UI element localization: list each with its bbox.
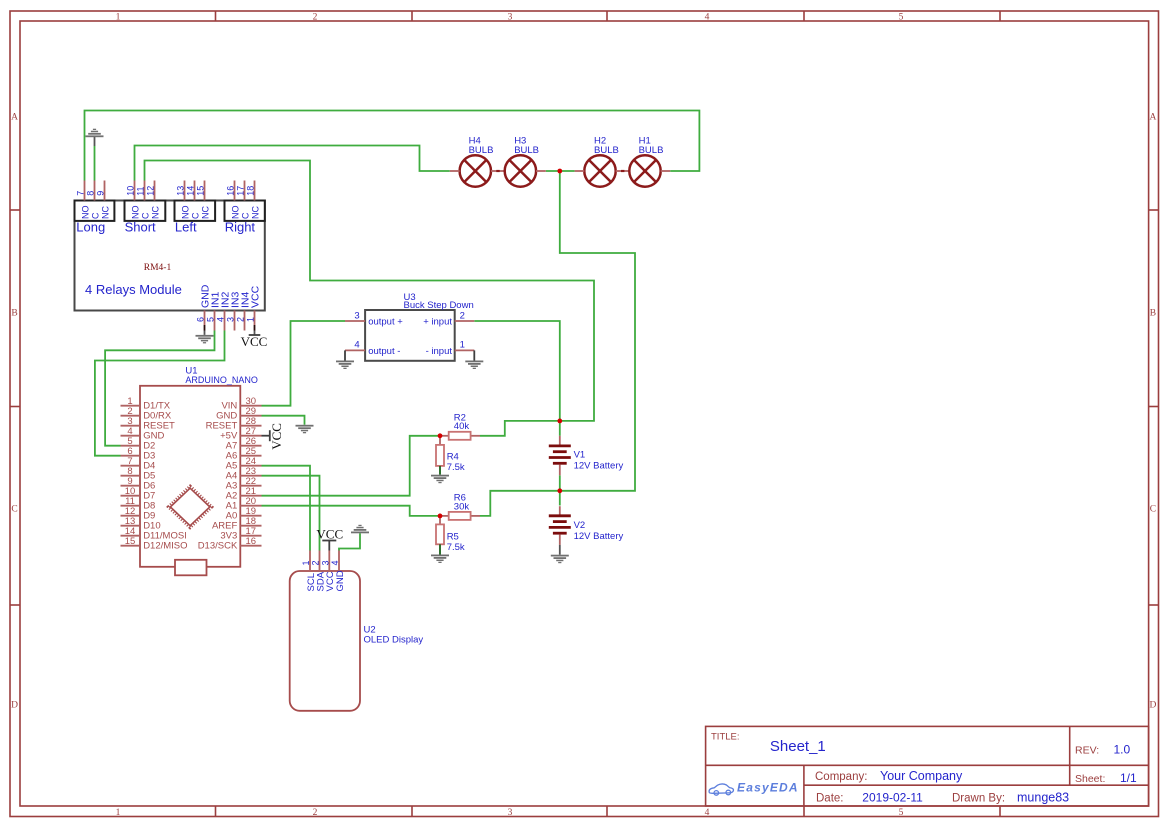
- svg-text:Sheet_1: Sheet_1: [770, 738, 826, 755]
- wire U1 A2 pin21 to node J3 (R2/R4): [262, 436, 441, 496]
- Arduino Nano U1 body: [140, 386, 240, 567]
- svg-text:40k: 40k: [454, 421, 470, 432]
- svg-text:2: 2: [313, 808, 318, 818]
- svg-text:C: C: [11, 505, 17, 515]
- svg-text:Date:: Date:: [816, 793, 844, 805]
- wire V1 bottom to node J2: [559, 475, 561, 491]
- svg-text:C: C: [90, 212, 100, 219]
- svg-text:EasyEDA: EasyEDA: [737, 781, 799, 795]
- svg-text:VCC: VCC: [269, 423, 284, 450]
- ground flag at relay pin 6: [196, 335, 214, 337]
- ground flag (inverted) at U2 pin 4: [351, 532, 369, 534]
- svg-text:2: 2: [313, 12, 318, 22]
- wire U3 pin2 (+ input) to node J1: [474, 321, 560, 421]
- ground flag at R4: [431, 475, 449, 477]
- U1 pin 1 (D1/TX): [121, 405, 141, 407]
- svg-text:GND: GND: [335, 570, 346, 591]
- relay contact box Right: [225, 201, 265, 221]
- svg-text:Short: Short: [125, 220, 156, 235]
- svg-text:5: 5: [899, 12, 904, 22]
- wire relay pin10 to H4 left terminal: [135, 146, 450, 181]
- svg-text:+ input: + input: [423, 316, 452, 327]
- U1 pin 10 (D7): [121, 495, 141, 497]
- svg-text:1: 1: [460, 340, 465, 351]
- svg-text:NC: NC: [100, 206, 110, 219]
- relay top pin 8 stub: [94, 181, 96, 201]
- U2 pin 4 (GND): [338, 551, 340, 572]
- wire OLED GND pin4 to ground: [339, 533, 360, 550]
- relay top pin 18 stub: [254, 181, 256, 201]
- buck converter U3 body: [365, 310, 455, 361]
- svg-text:4: 4: [216, 317, 226, 322]
- relay bottom pin 3 (IN3) stub: [234, 311, 236, 331]
- svg-text:17: 17: [236, 186, 246, 196]
- svg-text:ARDUINO_NANO: ARDUINO_NANO: [185, 375, 258, 386]
- svg-text:Right: Right: [225, 220, 256, 235]
- U1 pin 5 (D2): [121, 445, 141, 447]
- U1 pin 16 (D13/SCK): [240, 545, 261, 547]
- relay top pin 15 stub: [204, 181, 206, 201]
- wire R6 right to node J2: [480, 491, 560, 516]
- ground flag at V2: [551, 555, 569, 557]
- svg-text:1.0: 1.0: [1114, 743, 1131, 757]
- ground flag at U3 pin 4: [344, 350, 346, 360]
- U1 pin 12 (D9): [121, 515, 141, 517]
- node J2 battery midpoint junction: [557, 488, 562, 493]
- wire bulb row H3 to H2 through node J0: [546, 170, 575, 172]
- wire U1 A4 pin23 to OLED SDA: [262, 476, 320, 551]
- U1 pin 9 (D6): [121, 485, 141, 487]
- relay bottom pin 2 (IN4) stub: [244, 311, 246, 331]
- svg-text:Left: Left: [175, 220, 197, 235]
- ground flag at U3 pin 1: [473, 350, 475, 360]
- U3 pin 1 (- input): [455, 349, 475, 351]
- battery V2 12V: [559, 506, 561, 515]
- svg-text:13: 13: [176, 186, 186, 196]
- resistor R5 7.5k: [439, 516, 441, 525]
- U1 pin 23 (A4): [240, 475, 261, 477]
- relay bottom pin 6 (GND) stub: [204, 311, 206, 326]
- wire U1 A5 pin24 to OLED SCL: [262, 466, 311, 551]
- ground flag at R5: [431, 555, 449, 557]
- svg-text:8: 8: [86, 191, 96, 196]
- svg-text:D: D: [1149, 701, 1156, 711]
- svg-text:VCC: VCC: [241, 334, 268, 349]
- svg-text:1: 1: [301, 560, 311, 565]
- svg-text:2: 2: [311, 560, 321, 565]
- U1 pin 28 (RESET): [240, 425, 261, 427]
- relay module RM4-1 body: [75, 201, 265, 311]
- svg-text:NC: NC: [150, 206, 160, 219]
- relay contact box Left: [175, 201, 216, 221]
- relay top pin 7 stub: [84, 181, 86, 201]
- relay top pin 11 stub: [144, 181, 146, 201]
- resistor R2 40k: [440, 435, 449, 437]
- wire relay IN1 pin5 to U1 D2 pin5: [105, 331, 214, 446]
- svg-text:7: 7: [76, 191, 86, 196]
- relay top pin 9 stub: [104, 181, 106, 201]
- wire R2 right to node J1: [480, 421, 560, 436]
- svg-text:VCC: VCC: [316, 527, 343, 542]
- relay bottom pin 1 (VCC) stub: [254, 311, 256, 326]
- bulb H2: [584, 155, 615, 186]
- svg-text:3: 3: [508, 808, 513, 818]
- relay top pin 10 stub: [134, 181, 136, 201]
- svg-text:OLED Display: OLED Display: [364, 634, 424, 645]
- svg-text:12V Battery: 12V Battery: [574, 531, 624, 542]
- wire relay IN2 pin4 to U1 D3 pin6: [95, 331, 225, 456]
- svg-text:NO: NO: [130, 206, 140, 220]
- svg-text:2: 2: [236, 317, 246, 322]
- svg-text:C: C: [140, 212, 150, 219]
- wire U3 pin3 (output +) to U1 VIN pin30: [262, 321, 346, 406]
- svg-text:30k: 30k: [454, 501, 470, 512]
- svg-text:4: 4: [705, 808, 710, 818]
- svg-text:9: 9: [96, 191, 106, 196]
- U2 pin 1 (SCL): [309, 551, 311, 572]
- svg-text:6: 6: [196, 317, 206, 322]
- svg-text:BULB: BULB: [514, 145, 539, 156]
- wire node J2 to V2 top: [559, 491, 561, 506]
- svg-text:18: 18: [246, 186, 256, 196]
- node J3 R2/R4 junction: [438, 433, 443, 438]
- wire U1 A1 pin20 to node J4 (R6/R5): [262, 506, 441, 516]
- svg-text:Long: Long: [76, 220, 105, 235]
- svg-text:- input: - input: [426, 346, 453, 357]
- relay top pin 16 stub: [234, 181, 236, 201]
- ground flag (inverted) at relay pin 8: [94, 137, 96, 146]
- U2 pin 2 (SDA): [319, 551, 321, 572]
- U1 pin 18 (AREF): [240, 525, 261, 527]
- svg-text:4: 4: [330, 560, 340, 565]
- U1 pin 3 (RESET): [121, 425, 141, 427]
- svg-text:Your Company: Your Company: [880, 769, 963, 783]
- U1 pin 21 (A2): [240, 495, 261, 497]
- svg-text:VCC: VCC: [249, 285, 261, 308]
- VCC flag at U2 pin 3: [328, 541, 330, 551]
- svg-text:C: C: [190, 212, 200, 219]
- relay top pin 17 stub: [244, 181, 246, 201]
- svg-text:RM4-1: RM4-1: [144, 263, 172, 273]
- U1 pin 25 (A6): [240, 455, 261, 457]
- svg-text:V2: V2: [574, 520, 586, 531]
- H2 terminal stubs: [575, 170, 585, 172]
- U1 pin 14 (D11/MOSI): [121, 535, 141, 537]
- svg-text:V1: V1: [574, 450, 586, 461]
- svg-text:1: 1: [116, 12, 121, 22]
- svg-text:Company:: Company:: [815, 771, 867, 783]
- relay bottom pin 5 (IN1) stub: [214, 311, 216, 331]
- svg-text:11: 11: [136, 186, 146, 195]
- svg-text:2019-02-11: 2019-02-11: [862, 791, 923, 805]
- wire relay pin11 to node J1 (battery +): [145, 161, 595, 421]
- EasyEDA logo: [709, 784, 733, 795]
- U1 pin 6 (D3): [121, 455, 141, 457]
- svg-text:C: C: [1150, 505, 1156, 515]
- U1 pin 7 (D4): [121, 465, 141, 467]
- svg-text:output -: output -: [368, 346, 400, 357]
- U1 pin 24 (A5): [240, 465, 261, 467]
- svg-text:5: 5: [899, 808, 904, 818]
- wire node J1 to V1 top: [559, 421, 561, 436]
- U1 pin 17 (3V3): [240, 535, 261, 537]
- U1 pin 2 (D0/RX): [121, 415, 141, 417]
- battery V1 12V: [559, 436, 561, 446]
- svg-text:3: 3: [508, 12, 513, 22]
- node J0 bulb row junction: [557, 169, 562, 174]
- svg-text:C: C: [240, 212, 250, 219]
- svg-text:1: 1: [246, 317, 256, 322]
- U1 pin 8 (D5): [121, 475, 141, 477]
- svg-text:16: 16: [226, 186, 236, 196]
- svg-text:1/1: 1/1: [1120, 771, 1137, 785]
- svg-text:D12/MISO: D12/MISO: [143, 541, 187, 552]
- svg-text:NC: NC: [250, 206, 260, 219]
- U1 pin 26 (A7): [240, 445, 261, 447]
- U3 pin 2 (+ input): [455, 320, 475, 322]
- svg-text:NO: NO: [180, 206, 190, 220]
- U2 pin 3 (VCC): [328, 551, 330, 572]
- svg-text:output +: output +: [368, 316, 403, 327]
- svg-text:12: 12: [146, 186, 156, 196]
- wire node J0 to node J2 (battery midpoint): [560, 171, 635, 491]
- svg-text:4: 4: [705, 12, 710, 22]
- bulb H4: [460, 155, 491, 186]
- wire relay pin8 to ground flag: [94, 146, 96, 181]
- svg-text:12V Battery: 12V Battery: [574, 461, 624, 472]
- bulb H1: [629, 155, 660, 186]
- node J1 battery top junction: [557, 419, 562, 424]
- ground flag at U1 pin 29: [296, 425, 314, 427]
- svg-text:A: A: [11, 113, 18, 123]
- svg-text:NO: NO: [80, 206, 90, 220]
- svg-text:TITLE:: TITLE:: [711, 732, 740, 743]
- svg-text:5: 5: [206, 317, 216, 322]
- svg-text:3: 3: [354, 310, 359, 321]
- svg-text:NC: NC: [200, 206, 210, 219]
- relay top pin 13 stub: [184, 181, 186, 201]
- svg-text:B: B: [11, 309, 17, 319]
- svg-text:NO: NO: [230, 206, 240, 220]
- svg-text:R5: R5: [447, 531, 459, 542]
- svg-text:B: B: [1150, 309, 1156, 319]
- U1 pin 22 (A3): [240, 485, 261, 487]
- U1 pin 13 (D10): [121, 525, 141, 527]
- VCC flag at U1 pin 27: [262, 435, 270, 437]
- svg-text:10: 10: [126, 186, 136, 196]
- svg-text:7.5k: 7.5k: [447, 462, 465, 473]
- VCC flag at relay pin 1: [254, 331, 256, 336]
- wire U1 GND pin29 to ground: [262, 416, 305, 425]
- U1 pin 20 (A1): [240, 505, 261, 507]
- U3 pin 3 (output +): [345, 320, 365, 322]
- relay bottom pin 4 (IN2) stub: [224, 311, 226, 331]
- svg-text:A: A: [1149, 113, 1156, 123]
- U1 pin 27 (+5V): [240, 435, 261, 437]
- title block: [706, 726, 1149, 806]
- U1 pin 4 (GND): [121, 435, 141, 437]
- relay contact box Short: [125, 201, 166, 221]
- U1 pin 19 (A0): [240, 515, 261, 517]
- svg-text:BULB: BULB: [594, 145, 619, 156]
- bulb H3: [505, 155, 536, 186]
- wire relay pin7 to H1 right terminal: [85, 111, 700, 181]
- node J4 R6/R5 junction: [438, 514, 443, 519]
- svg-text:4: 4: [354, 340, 359, 351]
- svg-text:2: 2: [460, 310, 465, 321]
- H3 right stub: [536, 170, 546, 172]
- svg-text:D: D: [11, 701, 18, 711]
- U3 pin 4 (output -): [345, 349, 365, 351]
- svg-text:3: 3: [226, 317, 236, 322]
- svg-text:15: 15: [196, 186, 206, 196]
- svg-text:R4: R4: [447, 451, 459, 462]
- svg-text:REV:: REV:: [1075, 744, 1099, 756]
- U1 chip diamond glyph: [169, 486, 212, 527]
- resistor R6 30k: [440, 515, 449, 517]
- svg-text:7.5k: 7.5k: [447, 542, 465, 553]
- relay contact box Long: [75, 201, 115, 221]
- svg-text:munge83: munge83: [1017, 791, 1069, 805]
- svg-text:Sheet:: Sheet:: [1075, 773, 1105, 785]
- H1 right stub: [661, 170, 671, 172]
- relay top pin 14 stub: [194, 181, 196, 201]
- resistor R4 7.5k: [439, 436, 441, 445]
- svg-text:D13/SCK: D13/SCK: [198, 541, 238, 552]
- U1 pin 11 (D8): [121, 505, 141, 507]
- U1 pin 30 (VIN): [240, 405, 261, 407]
- svg-text:4 Relays Module: 4 Relays Module: [85, 282, 182, 297]
- relay top pin 12 stub: [154, 181, 156, 201]
- svg-text:BULB: BULB: [469, 145, 494, 156]
- svg-text:16: 16: [246, 536, 257, 547]
- U1 USB connector glyph: [175, 560, 207, 576]
- U1 pin 15 (D12/MISO): [121, 545, 141, 547]
- OLED display U2 body: [290, 571, 360, 711]
- U1 pin 29 (GND): [240, 415, 261, 417]
- svg-text:Drawn By:: Drawn By:: [952, 793, 1005, 805]
- svg-text:14: 14: [186, 186, 196, 196]
- svg-text:15: 15: [125, 536, 136, 547]
- svg-text:1: 1: [116, 808, 121, 818]
- H4 terminal stubs: [450, 170, 460, 172]
- svg-text:3: 3: [320, 560, 330, 565]
- svg-text:BULB: BULB: [639, 145, 664, 156]
